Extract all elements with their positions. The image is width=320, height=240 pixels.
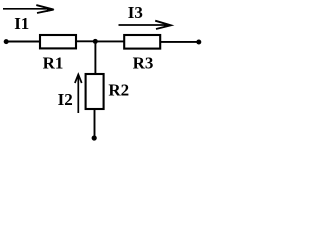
wire: R1 to junction [77,40,96,42]
current arrow I2 [75,74,82,113]
resistor R2 [86,74,104,109]
wire: junction to R3 [95,40,124,42]
node: right terminal dot [196,40,201,45]
wire: junction down to R2 [94,41,96,74]
svg-text:R2: R2 [108,80,129,99]
resistor R1 [40,35,76,48]
current arrow I3 [119,21,172,29]
svg-text:I3: I3 [128,3,143,22]
wire: left terminal to R1 [5,41,40,43]
svg-text:I1: I1 [14,14,29,33]
node: junction dot [93,39,98,44]
node: bottom terminal dot [92,135,97,140]
wire: R3 to right terminal [161,41,199,43]
wire: R2 to bottom terminal [94,110,96,138]
node: left terminal dot [4,39,9,44]
svg-text:R3: R3 [133,53,154,72]
svg-text:I2: I2 [58,90,73,109]
resistor R3 [124,35,160,49]
svg-text:R1: R1 [43,54,64,73]
current arrow I1 [3,5,55,13]
